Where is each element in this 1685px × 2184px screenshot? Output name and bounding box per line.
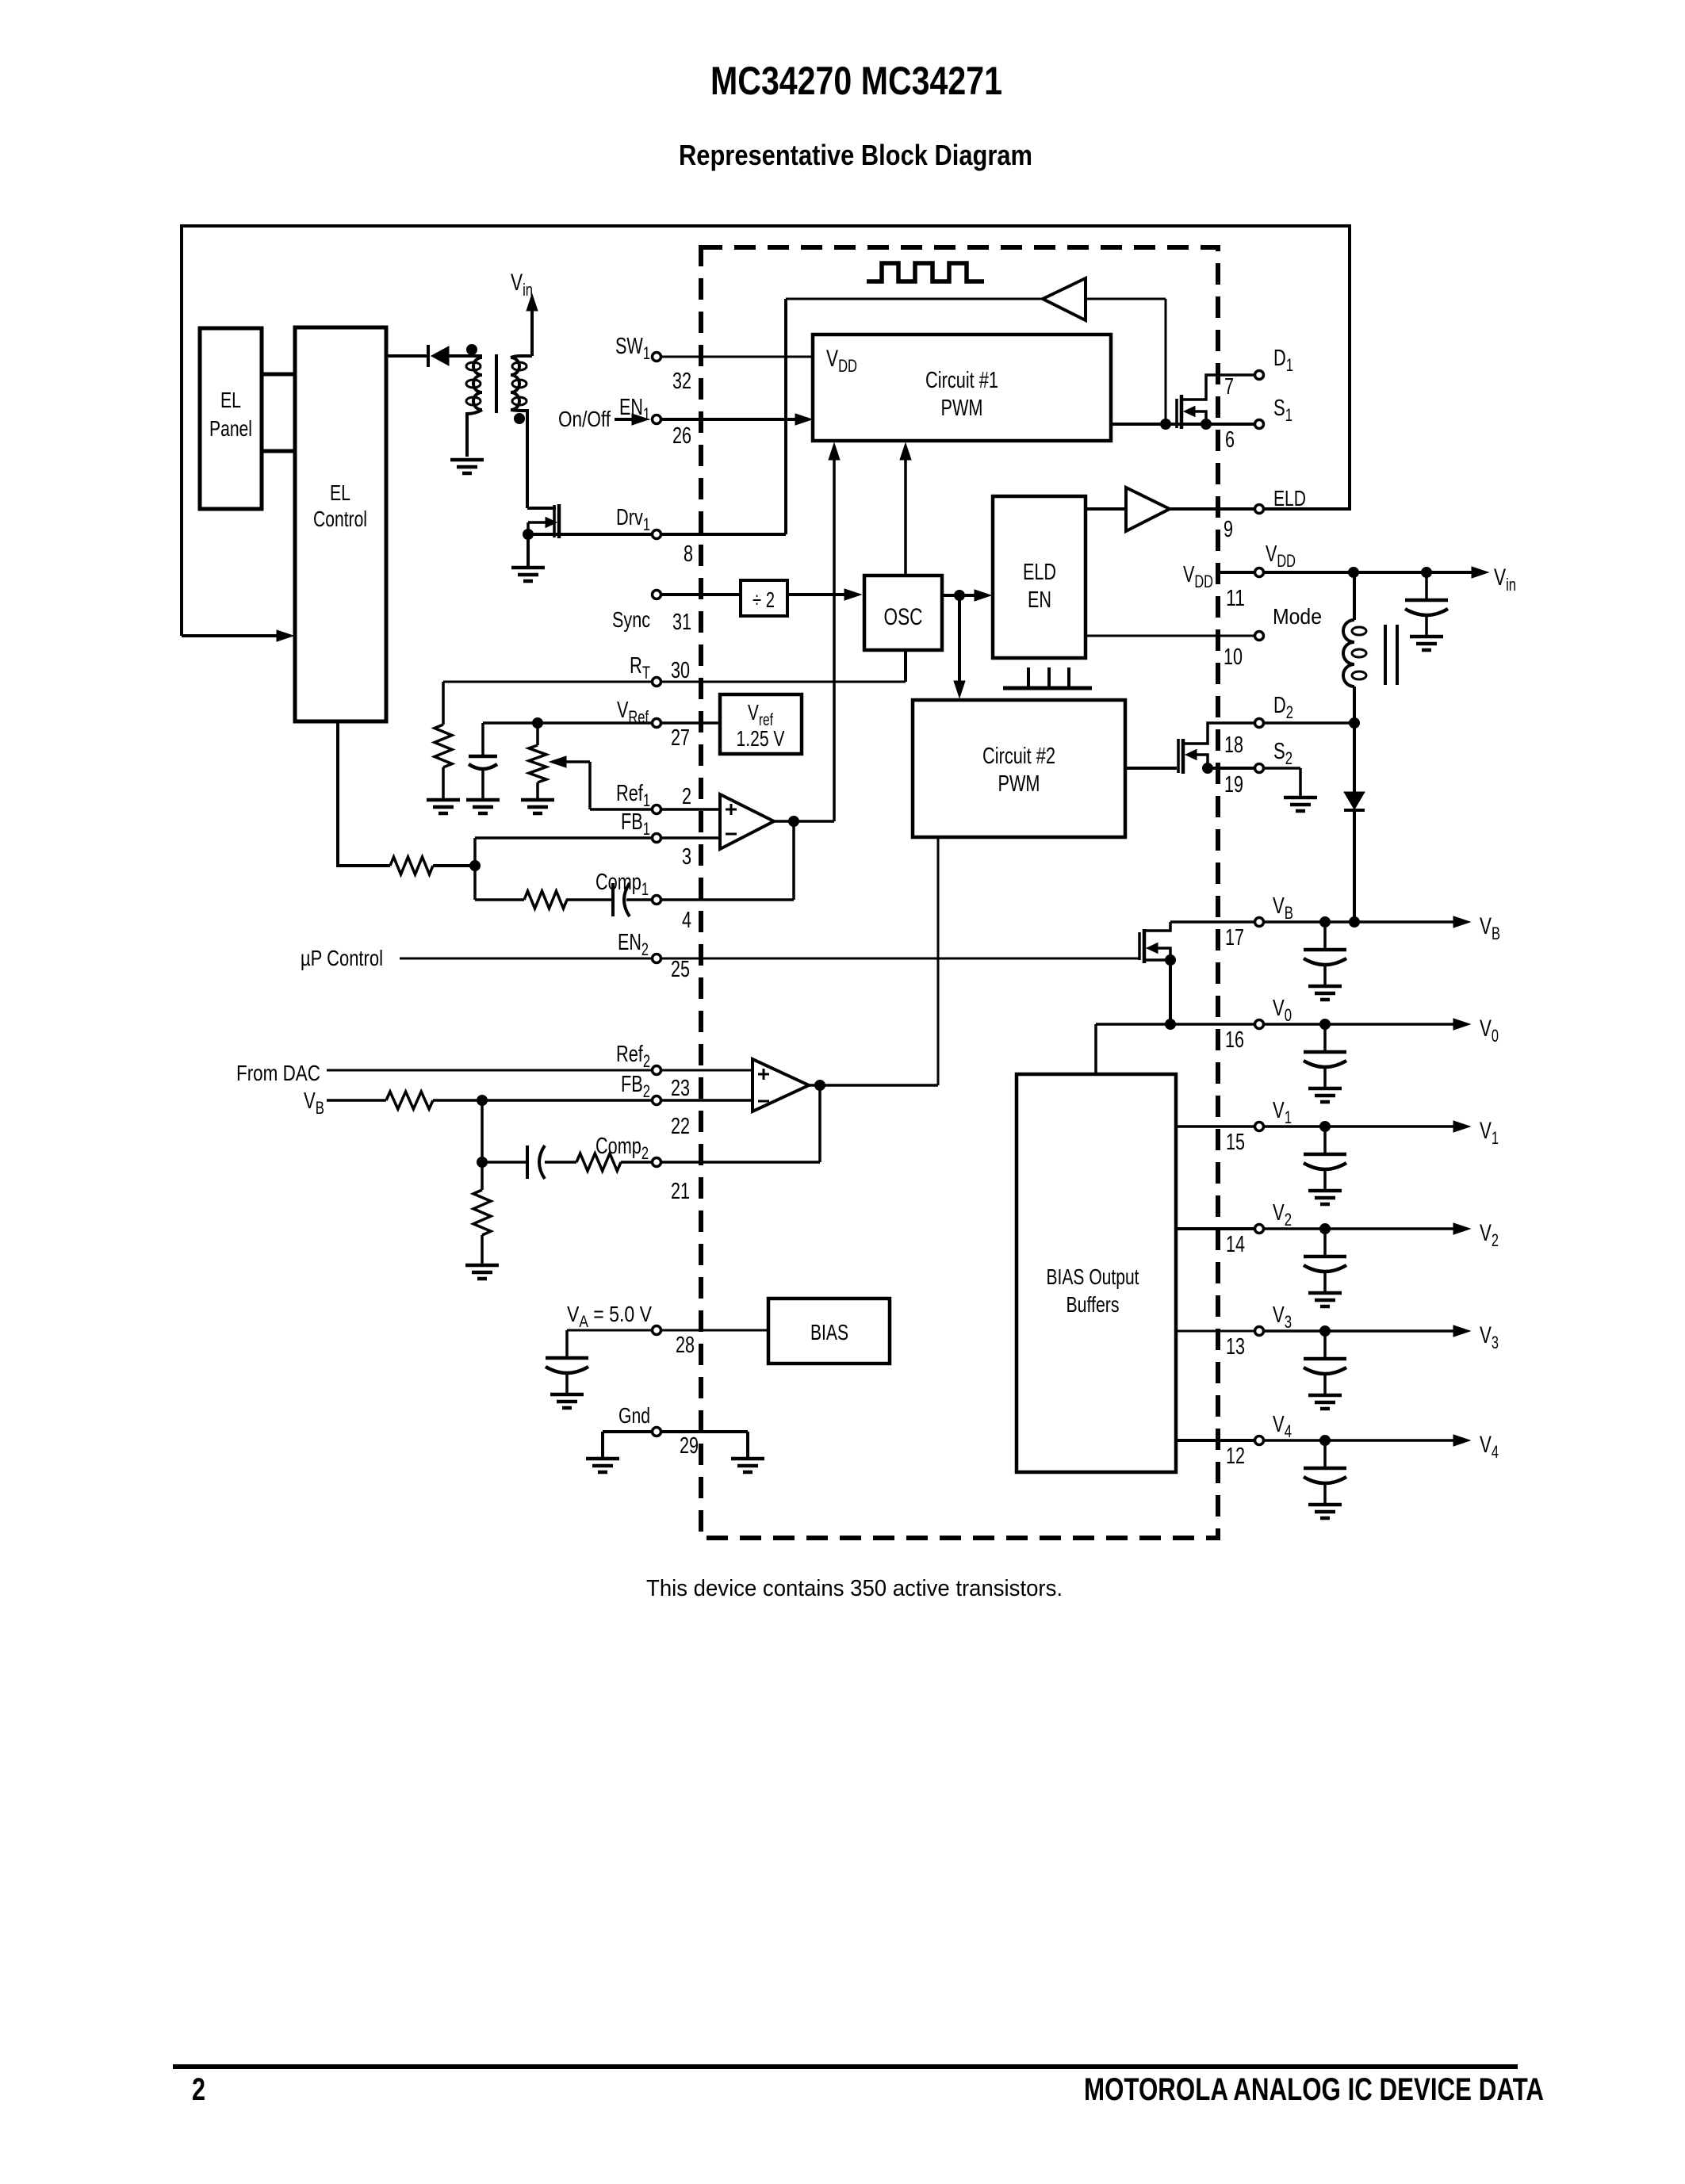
svg-text:Vref: Vref [748,700,773,729]
svg-text:Vin: Vin [511,270,533,300]
svg-text:11: 11 [1226,586,1245,611]
svg-text:2: 2 [192,2072,205,2107]
svg-text:This device contains 350 activ: This device contains 350 active transist… [646,1576,1063,1601]
svg-text:8: 8 [684,541,693,567]
svg-text:D2: D2 [1273,693,1293,722]
svg-text:D1: D1 [1273,346,1293,375]
svg-text:Drv1: Drv1 [616,505,650,534]
svg-text:16: 16 [1225,1027,1244,1053]
svg-text:3: 3 [682,844,691,870]
svg-text:6: 6 [1225,427,1235,453]
svg-text:21: 21 [671,1179,690,1204]
svg-text:BIAS: BIAS [810,1320,848,1344]
svg-text:31: 31 [672,610,691,635]
svg-text:Vin: Vin [1494,564,1516,595]
svg-text:Buffers: Buffers [1067,1292,1120,1317]
svg-text:7: 7 [1224,374,1234,400]
svg-text:Circuit #1: Circuit #1 [925,368,998,393]
svg-text:25: 25 [671,957,690,982]
svg-text:12: 12 [1226,1444,1245,1469]
svg-text:VA = 5.0 V: VA = 5.0 V [567,1302,652,1331]
svg-text:V2: V2 [1480,1220,1499,1250]
svg-text:EL: EL [220,388,241,412]
svg-text:SW1: SW1 [615,334,650,363]
svg-text:EN2: EN2 [618,930,649,959]
svg-text:Gnd: Gnd [618,1403,650,1428]
svg-text:VDD: VDD [1266,541,1296,571]
svg-text:VB: VB [1480,913,1500,943]
svg-text:23: 23 [671,1076,690,1101]
svg-text:27: 27 [671,725,690,751]
svg-text:VRef: VRef [617,698,649,727]
svg-text:V1: V1 [1480,1118,1499,1148]
svg-text:V0: V0 [1480,1016,1499,1046]
svg-text:V3: V3 [1273,1302,1292,1332]
svg-text:Circuit #2: Circuit #2 [982,744,1055,769]
svg-text:On/Off: On/Off [558,407,611,431]
svg-text:µP Control: µP Control [301,946,383,970]
svg-text:VB: VB [1273,893,1293,923]
svg-text:RT: RT [630,653,650,683]
svg-text:Sync: Sync [612,607,650,632]
svg-text:OSC: OSC [884,604,923,630]
svg-text:19: 19 [1224,772,1243,797]
svg-text:Mode: Mode [1273,604,1322,629]
svg-text:Panel: Panel [209,416,252,441]
svg-text:1.25 V: 1.25 V [737,726,785,751]
svg-text:9: 9 [1224,517,1233,542]
svg-text:÷ 2: ÷ 2 [753,587,775,612]
svg-text:VDD: VDD [1183,562,1213,591]
svg-text:V4: V4 [1273,1412,1292,1441]
svg-text:S2: S2 [1273,739,1292,768]
svg-text:FB1: FB1 [621,809,650,839]
svg-text:EN: EN [1028,587,1051,613]
svg-text:22: 22 [671,1114,690,1139]
svg-text:13: 13 [1226,1334,1245,1360]
svg-text:Ref2: Ref2 [616,1042,650,1071]
svg-text:17: 17 [1225,925,1244,950]
svg-text:10: 10 [1224,644,1243,670]
svg-text:From DAC: From DAC [236,1061,320,1085]
svg-text:26: 26 [672,423,691,449]
svg-text:MOTOROLA ANALOG IC DEVICE DATA: MOTOROLA ANALOG IC DEVICE DATA [1084,2072,1544,2107]
svg-text:V1: V1 [1273,1098,1292,1127]
svg-text:14: 14 [1226,1232,1245,1257]
svg-text:VDD: VDD [826,346,857,376]
svg-text:PWM: PWM [998,771,1040,797]
svg-text:Ref1: Ref1 [616,781,650,810]
svg-text:ELD: ELD [1273,486,1306,511]
svg-text:30: 30 [671,658,690,683]
svg-text:MC34270 MC34271: MC34270 MC34271 [710,59,1002,103]
svg-text:BIAS Output: BIAS Output [1047,1264,1139,1289]
svg-text:4: 4 [682,908,691,933]
svg-text:VB: VB [304,1088,324,1118]
svg-text:S1: S1 [1273,396,1292,425]
svg-text:Representative Block Diagram: Representative Block Diagram [679,139,1032,171]
svg-text:FB2: FB2 [621,1072,650,1101]
svg-text:28: 28 [676,1333,695,1358]
svg-text:PWM: PWM [941,396,983,421]
svg-text:29: 29 [680,1433,699,1459]
svg-text:ELD: ELD [1023,560,1056,585]
svg-text:15: 15 [1226,1130,1245,1155]
svg-text:V0: V0 [1273,996,1292,1025]
svg-text:V2: V2 [1273,1200,1292,1230]
svg-text:EL: EL [330,480,350,505]
svg-text:2: 2 [682,784,691,809]
svg-text:V3: V3 [1480,1322,1499,1352]
svg-text:32: 32 [672,369,691,394]
svg-text:V4: V4 [1480,1432,1499,1462]
svg-text:Control: Control [313,507,367,531]
svg-text:EN1: EN1 [619,395,650,424]
svg-text:18: 18 [1224,732,1243,758]
svg-text:Comp2: Comp2 [595,1134,649,1163]
svg-text:Comp1: Comp1 [595,870,649,899]
